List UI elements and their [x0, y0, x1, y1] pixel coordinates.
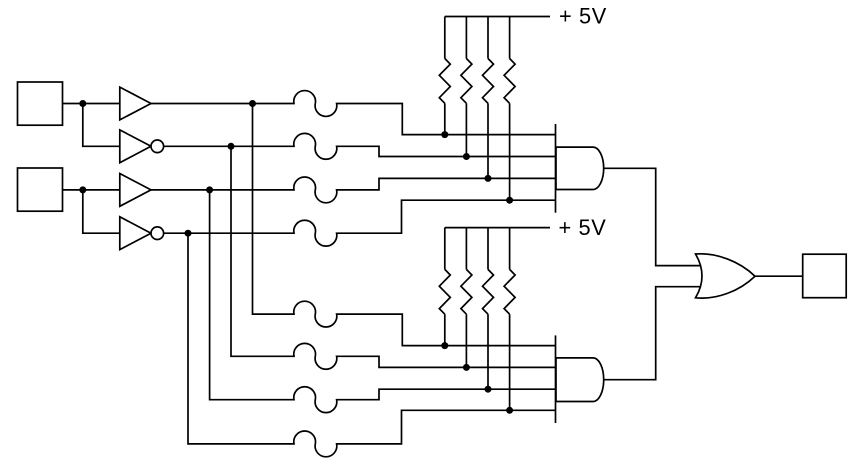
AND gate U6 input bar	[555, 335, 557, 423]
node resistor R7 to AND U6 input 3	[485, 386, 492, 393]
OR gate U7	[696, 254, 756, 298]
+5V rail (top)	[445, 16, 550, 18]
inverter U2	[120, 130, 151, 163]
output box	[803, 254, 847, 298]
wire OR U7 output to output box	[755, 275, 803, 277]
wire node B to inverter U4	[83, 190, 120, 233]
svg-text:+ 5V: + 5V	[559, 215, 607, 240]
wire AND U5 output to OR U7 input 1	[604, 168, 700, 265]
wire AND U6 output to OR U7 input 2	[604, 287, 700, 380]
node A junction	[79, 100, 86, 107]
resistor R1	[444, 17, 446, 59]
wire input B to buffer U3	[63, 189, 120, 191]
buffer U3	[120, 174, 151, 207]
AND gate U5 body	[556, 147, 604, 189]
node resistor R5 to AND U6 input 1	[441, 342, 448, 349]
node on wire 1 feeding bus 1	[249, 100, 256, 107]
resistor R2	[465, 17, 467, 59]
AND gate U5 input bar	[555, 124, 557, 213]
node on wire 2 feeding bus 2	[228, 143, 235, 150]
+5V rail (bottom)	[445, 227, 550, 229]
node on wire 3 feeding bus 3	[206, 186, 213, 193]
svg-text:+ 5V: + 5V	[559, 4, 607, 29]
wire B (buffer U3 output) with crossover to AND U5 input 3	[151, 177, 556, 203]
wire A branch with crossover to AND U6 input 1	[253, 104, 556, 346]
resistor R5	[444, 228, 446, 270]
wire B' branch with crossover to AND U6 input 4	[188, 233, 556, 457]
node on wire 4 feeding bus 4	[185, 230, 192, 237]
resistor R8	[509, 228, 511, 270]
AND gate U6 body	[556, 358, 604, 402]
node resistor R3 to AND U5 input 3	[485, 175, 492, 182]
wire A' (inverter U2 output) with crossover to AND U5 input 2	[164, 133, 556, 159]
inverter U4	[120, 217, 151, 250]
buffer U1	[120, 87, 151, 120]
wire node A to inverter U2	[83, 104, 120, 147]
node B junction	[79, 186, 86, 193]
node resistor R8 to AND U6 input 4	[506, 407, 513, 414]
node resistor R1 to AND U5 input 1	[441, 131, 448, 138]
resistor R6	[465, 228, 467, 270]
resistor R3	[487, 17, 489, 59]
wire B branch with crossover to AND U6 input 3	[210, 190, 556, 413]
node resistor R6 to AND U6 input 2	[463, 364, 470, 371]
wire A' branch with crossover to AND U6 input 2	[231, 146, 556, 369]
resistor R4	[509, 17, 511, 59]
node resistor R4 to AND U5 input 4	[506, 197, 513, 204]
input box A	[18, 82, 63, 125]
wire B' (inverter U4 output) with crossover to AND U5 input 4	[164, 200, 556, 246]
wire A (buffer U1 output) with crossover to AND U5 input 1	[151, 91, 556, 135]
wire input A to buffer U1	[63, 103, 120, 105]
input box B	[18, 168, 63, 211]
resistor R7	[487, 228, 489, 270]
node resistor R2 to AND U5 input 2	[463, 153, 470, 160]
